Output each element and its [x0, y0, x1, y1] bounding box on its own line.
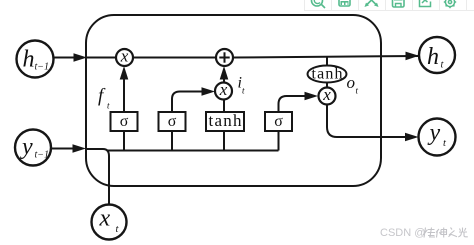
wire bottom distribution line — [107, 150, 279, 152]
wire ellipse to x3 — [326, 83, 328, 89]
wire X1 to plus — [133, 57, 216, 59]
wire tanh box up to x2 — [223, 100, 225, 113]
wire h_{t-1} to box — [54, 57, 75, 59]
wire plus to h_t — [233, 56, 419, 58]
wire sigma1 stub down — [123, 131, 125, 151]
watermark char hai — [423, 228, 435, 238]
sigma box 1 — [111, 112, 138, 131]
svg-text:x: x — [219, 80, 228, 99]
toolbar icon chart — [420, 0, 431, 7]
svg-text:x: x — [322, 85, 331, 104]
toolbar icon expand arrows — [365, 0, 379, 7]
wire sigma2 curved to x2 — [172, 92, 202, 113]
gate add — [216, 49, 233, 66]
tanh ellipse — [308, 66, 347, 83]
tanh box — [206, 112, 244, 131]
svg-text:t−1: t−1 — [35, 150, 50, 161]
wire sigma2 stub down — [171, 131, 173, 151]
watermark char shen — [436, 228, 447, 238]
toolbar icon gear — [444, 0, 456, 8]
svg-text:t−1: t−1 — [35, 62, 50, 73]
watermark char zhi — [449, 228, 458, 237]
wire top cell-state line — [86, 57, 116, 59]
wire sigma1 up to X1 — [123, 73, 125, 112]
wire x2 up to plus — [223, 73, 225, 83]
node x_t — [92, 205, 127, 240]
svg-text:σ: σ — [120, 113, 129, 130]
gate multiply x2 — [215, 83, 232, 100]
toolbar icon box — [339, 0, 350, 6]
svg-text:tanh: tanh — [209, 111, 243, 130]
sigma box 2 — [159, 112, 186, 131]
wire sigma3 curved to x3 — [279, 96, 306, 112]
toolbar icon zoom — [312, 0, 326, 8]
wire tanh box stub down — [223, 131, 225, 151]
toolbar icon save — [393, 0, 405, 7]
LSTM cell body rounded box — [86, 15, 381, 186]
svg-text:o: o — [347, 73, 356, 92]
sigma box 3 — [265, 112, 292, 131]
svg-text:h: h — [23, 47, 35, 73]
wire sigma3 stub down — [278, 131, 280, 151]
svg-text:CSDN @: CSDN @ — [380, 227, 425, 239]
wire x_t stem up to bottom line — [86, 149, 109, 205]
toolbar top-right — [304, 0, 474, 11]
svg-text:y: y — [20, 134, 33, 160]
svg-text:x: x — [99, 206, 111, 232]
node h_t — [419, 37, 455, 73]
svg-text:h: h — [427, 44, 439, 70]
wire x3 down then right to y_t — [327, 105, 406, 138]
wire top line down to tanh ellipse — [326, 58, 328, 67]
svg-text:σ: σ — [168, 113, 177, 130]
svg-text:y: y — [428, 120, 441, 146]
wire y_{t-1} to box — [51, 148, 74, 150]
gate multiply x3 — [319, 88, 336, 105]
gate multiply X1 — [116, 49, 133, 66]
svg-text:σ: σ — [274, 113, 283, 130]
svg-text:tanh: tanh — [312, 66, 343, 83]
watermark char guang — [458, 228, 468, 238]
node y_{t-1} — [15, 130, 51, 166]
svg-text:x: x — [120, 47, 129, 66]
node h_{t-1} — [17, 41, 54, 78]
node y_t — [419, 119, 456, 156]
